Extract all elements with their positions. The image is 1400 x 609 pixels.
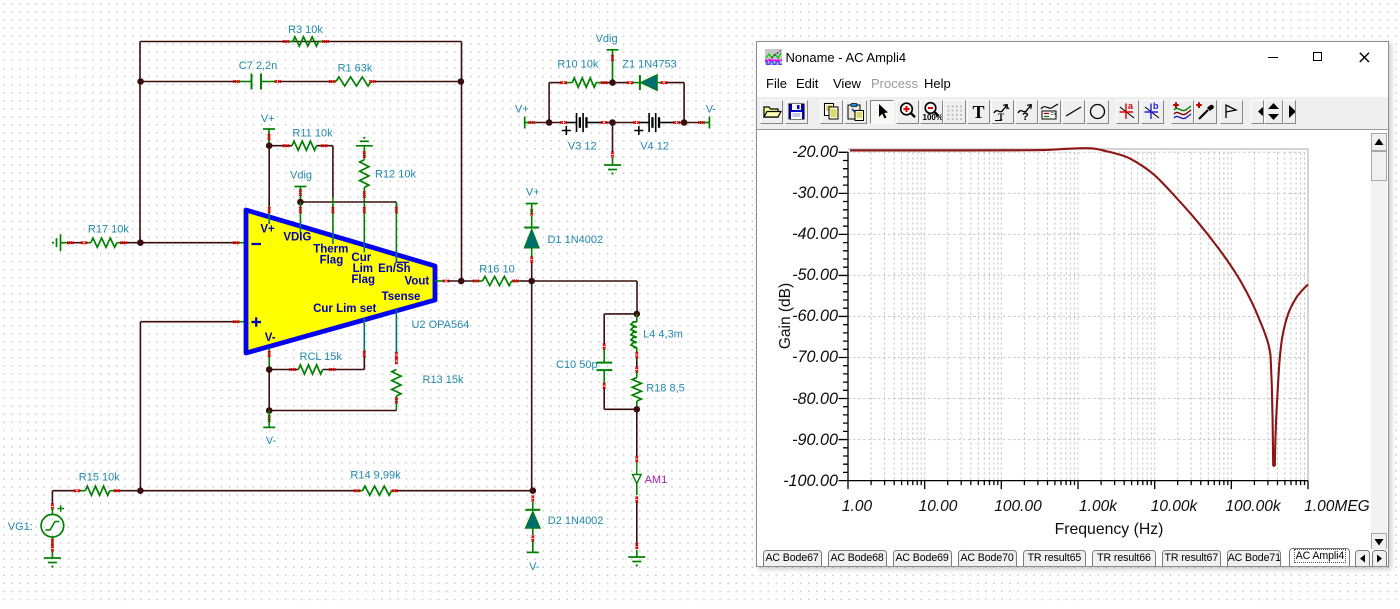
right vertical rail (feedback) [461,82,463,282]
svg-text:10.00k: 10.00k [1151,498,1199,515]
svg-text:R13 15k: R13 15k [423,374,464,386]
svg-text:V-: V- [266,435,277,447]
toolbar process-curve button 1 [991,100,1014,124]
svg-text:100.00: 100.00 [994,498,1042,515]
svg-text:V-: V- [529,561,540,573]
V+ power rail [263,129,275,146]
svg-text:V-: V- [706,104,717,116]
svg-text:100.00k: 100.00k [1225,498,1281,515]
op-amp U2 OPA564 body [246,210,435,353]
svg-text:R12 10k: R12 10k [375,169,416,181]
wire top feedback loop R3 [140,41,462,43]
svg-text:AM1: AM1 [645,474,668,486]
wire supply rail [535,122,561,124]
toolbar copy button [820,100,843,124]
scrollbar thumb [1371,151,1388,181]
tab AC Bode71 [1227,550,1282,566]
Vdig power rail top [607,50,619,83]
resistor R1 [332,81,336,83]
bottom rail with R15 R14 [52,490,74,492]
toolbar cursor-b button [1141,100,1164,124]
wire En/Sh drop [395,202,397,212]
battery V3 [566,113,603,132]
maximize button [1313,52,1322,61]
diode D1 triangle [524,229,539,248]
resistor R14 [355,490,363,492]
svg-text:Flag: Flag [320,254,344,266]
supply upper wire [549,82,561,84]
wire +input down to bottom rail [139,322,141,491]
resistor R16 [474,280,483,282]
wire long drop to D2 [531,281,533,491]
diode D2 1N4002 [532,495,535,501]
plot gridlines [848,152,1308,480]
svg-text:V-: V- [265,332,276,344]
diode D1 1N4002 [531,262,533,281]
wire AM1 to ground [636,502,638,546]
svg-text:RCL 15k: RCL 15k [300,351,343,363]
wire to inverting input [140,242,236,244]
zener diode Z1 1N4753 [613,82,628,84]
ground below VG1 [44,551,61,563]
toolbar [757,97,1388,131]
toolbar probe button [1194,100,1217,124]
svg-text:V+: V+ [526,187,540,199]
resistor R10 [572,78,596,87]
node D2 junction [530,487,537,494]
wire bottom V- link [269,410,396,412]
bode gain curve [850,148,1273,466]
svg-text:R1 63k: R1 63k [338,63,373,75]
svg-text:-70.00: -70.00 [792,348,838,366]
opamp pin stubs top [268,197,270,225]
svg-text:Flag: Flag [351,274,375,286]
svg-text:Vout: Vout [405,275,430,287]
toolbar nav spinner [1264,100,1283,124]
svg-text:1.00MEG: 1.00MEG [1304,498,1369,515]
V+ terminal [525,117,535,129]
wire bottom load link [604,408,637,410]
svg-text:Vdig: Vdig [596,33,618,45]
wire to C10 branch [604,313,637,315]
node supply right junction [681,119,688,126]
vertical scrollbar [1371,133,1388,551]
toolbar flag button [1220,100,1243,124]
toolbar grid button (disabled) [943,100,966,124]
svg-text:R11 10k: R11 10k [292,128,333,140]
toolbar nav right [1283,100,1296,124]
node +input bottom junction [137,487,144,494]
wire CurLimSet drop [363,357,365,370]
wire center to ground [612,123,614,153]
tab AC Ampli4 (active) [1289,548,1350,566]
V- power rail [263,411,275,428]
wire feedback mid rail [140,81,236,83]
V- terminal [699,117,709,129]
app icon (chart) [765,49,782,65]
toolbar line button [1062,100,1085,124]
opamp top pin inner stubs [268,213,270,224]
svg-text:V+: V+ [261,113,275,125]
plot client area [758,131,1372,549]
resistor R13 [395,358,398,364]
node V- bottom junction [266,407,273,414]
svg-text:-60.00: -60.00 [792,307,838,325]
svg-text:R18 8,5: R18 8,5 [646,383,685,395]
svg-text:1.00k: 1.00k [1079,498,1118,515]
scrollbar down button [1371,533,1388,551]
voltage generator VG1 [51,491,53,504]
plot frame right/top edge [848,149,1308,481]
svg-text:V+: V+ [260,224,275,236]
wire R11 to Therm pin [332,146,334,197]
wire V+ pin from junction [268,146,270,206]
tab AC Bode69 [893,550,952,566]
capacitor C7 [236,81,252,83]
bode plot group [777,143,1370,538]
window: Noname - AC Ampli4 [756,41,1389,567]
battery V4 [638,113,675,132]
toolbar cursor button (pressed) [870,100,894,124]
svg-text:R17 10k: R17 10k [88,224,129,236]
close button [1359,52,1370,63]
toolbar open button [760,100,783,124]
svg-text:V3 12: V3 12 [568,140,597,152]
svg-text:Frequency (Hz): Frequency (Hz) [1055,521,1164,538]
toolbar zoom-in button [896,100,919,124]
toolbar text button [967,100,990,124]
resistor R3 [289,41,293,43]
node supply left junction [546,119,553,126]
ammeter AM1 arrow [633,462,642,484]
svg-text:R14 9,99k: R14 9,99k [350,470,401,482]
resistor R18 [636,372,638,378]
inductor L4 [636,314,638,322]
svg-text:D2 1N4002: D2 1N4002 [548,515,604,527]
tab TR result66 [1092,550,1156,566]
wire load to AM1 [636,409,638,456]
node V- pin junction [266,366,273,373]
tab AC Bode68 [828,550,887,566]
window title text [786,50,907,65]
node junction right [458,78,465,85]
menu bar [757,73,1388,97]
tab bar [757,549,1388,566]
node supply center junction [609,119,616,126]
window title bar [757,42,1388,73]
svg-text:VDIG: VDIG [283,232,311,244]
tab TR result67 [1162,550,1221,566]
svg-text:-90.00: -90.00 [792,431,838,449]
opamp bottom pins [268,348,270,370]
toolbar cursor-a button [1116,100,1139,124]
wire to non-inverting input [140,321,236,323]
resistor R11 [269,145,292,147]
svg-text:C10 50p: C10 50p [556,359,598,371]
x axis [848,481,1308,490]
tab scroll right button [1372,550,1387,566]
wire from R16 node to load [532,280,637,282]
toolbar paste button [844,100,867,124]
svg-text:Lim: Lim [353,263,373,275]
toolbar zoom-100 button [920,100,943,124]
minimize button [1268,57,1279,59]
node feedback/Vout junction [458,278,465,285]
svg-text:VG1:: VG1: [8,521,33,533]
schematic group [8,24,717,573]
node inverting input junction [137,239,144,246]
resistor RCL [269,369,298,371]
node Vdig supply junction [609,79,616,86]
svg-text:L4 4,3m: L4 4,3m [643,329,683,341]
svg-text:-40.00: -40.00 [792,225,838,243]
svg-text:-50.00: -50.00 [792,266,838,284]
tab AC Bode67 [763,550,822,566]
supply wires down [548,83,550,123]
left vertical rail [139,82,141,243]
svg-text:10.00: 10.00 [919,498,958,515]
svg-text:V+: V+ [515,104,529,116]
resistor R12 [363,146,365,160]
V- rail below D2 [527,541,539,552]
svg-text:En/Sh: En/Sh [378,263,411,275]
svg-text:R10 10k: R10 10k [557,59,598,71]
svg-text:-100.00: -100.00 [783,472,838,490]
svg-text:U2 OPA564: U2 OPA564 [411,319,469,331]
V+ rail above D1 [526,204,538,215]
svg-text:V4 12: V4 12 [640,140,669,152]
toolbar process-curve button 2 [1015,100,1038,124]
Vdig power rail [294,187,306,200]
svg-text:R16 10: R16 10 [479,264,514,276]
y axis [839,152,849,480]
node load bottom junction [634,406,641,413]
node Vdig junction [297,199,304,206]
svg-text:R3 10k: R3 10k [288,24,323,36]
tab AC Bode70 [958,550,1017,566]
node load top junction [634,311,641,318]
toolbar circle button [1086,100,1109,124]
ground supply [604,158,621,170]
ground below AM1 [628,550,645,562]
svg-text:Vdig: Vdig [290,170,312,182]
svg-text:-80.00: -80.00 [792,390,838,408]
svg-text:C7 2,2n: C7 2,2n [239,60,278,72]
wire Vdig to En/Sh pin [300,201,396,203]
node junction left [137,78,144,85]
ground (inverted) [356,141,373,146]
svg-text:R15 10k: R15 10k [79,471,120,483]
svg-text:Z1 1N4753: Z1 1N4753 [622,59,676,71]
node R11/V+ junction [266,142,273,149]
svg-text:1.00: 1.00 [842,498,873,515]
svg-text:D1 1N4002: D1 1N4002 [547,234,603,246]
svg-text:Tsense: Tsense [382,291,421,303]
svg-text:-30.00: -30.00 [792,184,838,202]
svg-text:-20.00: -20.00 [792,143,838,161]
node R16/D1 junction [528,278,535,285]
toolbar add-curves button [1171,100,1194,124]
toolbar save button [785,100,808,124]
toolbar legend button [1038,100,1061,124]
output network: Vout wire [435,280,444,282]
svg-text:Gain (dB): Gain (dB) [777,283,794,349]
input terminal [57,234,68,251]
tab scroll left button [1355,550,1370,566]
tab TR result65 [1023,550,1087,566]
toolbar nav left [1251,100,1264,124]
capacitor C10 [603,349,605,362]
svg-text:Cur Lim set: Cur Lim set [313,303,376,315]
